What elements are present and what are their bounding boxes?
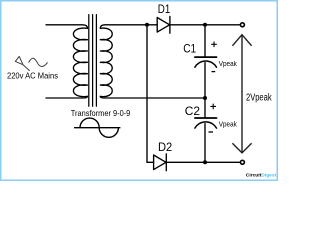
svg-text:Transformer 9-0-9: Transformer 9-0-9 [71, 109, 131, 118]
C1 plus polarity mark [211, 42, 217, 48]
wire primary top lead [46, 25, 88, 29]
C2 minus polarity mark [209, 131, 214, 133]
wire top rail to D1 [147, 24, 157, 26]
svg-text:2Vpeak: 2Vpeak [246, 92, 272, 103]
wire C column vertical [204, 25, 206, 163]
svg-text:C2: C2 [185, 104, 201, 118]
AC sine symbol under transformer [74, 118, 120, 137]
C1 minus polarity mark [212, 71, 216, 73]
AC mains source symbol [15, 56, 47, 70]
wire primary bottom lead [46, 96, 88, 98]
wire bottom rail to D2 [147, 161, 154, 163]
transformer primary winding [73, 28, 87, 97]
svg-text:C1: C1 [183, 42, 196, 56]
svg-text:Vpeak: Vpeak [219, 61, 237, 68]
svg-text:D1: D1 [158, 2, 171, 16]
2Vpeak measurement arrow [232, 35, 251, 153]
capacitor C1 plates [195, 56, 217, 58]
transformer core [89, 15, 97, 107]
svg-text:220v AC Mains: 220v AC Mains [7, 71, 58, 80]
wire secondary bottom lead / center tap to C junction [100, 96, 205, 98]
diode D2 [154, 154, 167, 171]
wire D2 to output [166, 161, 240, 163]
capacitor C2 plates [195, 117, 217, 119]
page border frame [1, 1, 278, 181]
svg-text:Vpeak: Vpeak [219, 122, 237, 129]
junction node C1/C2 midpoint [203, 96, 207, 100]
wire node A vertical [146, 25, 148, 163]
terminal bottom output [240, 160, 244, 164]
svg-text:D2: D2 [158, 140, 172, 154]
junction node bottom rail / C2 [203, 160, 207, 164]
diode D1 [157, 16, 170, 33]
terminal top output [240, 23, 244, 27]
junction node at D1 anode [145, 23, 149, 27]
C2 plus polarity mark [210, 104, 216, 110]
junction node top rail / C1 [203, 23, 207, 27]
wire secondary top lead [100, 25, 147, 29]
svg-text:CircuitDigest: CircuitDigest [246, 172, 277, 178]
wire D1 to output [170, 24, 240, 26]
transformer secondary winding [100, 28, 112, 97]
